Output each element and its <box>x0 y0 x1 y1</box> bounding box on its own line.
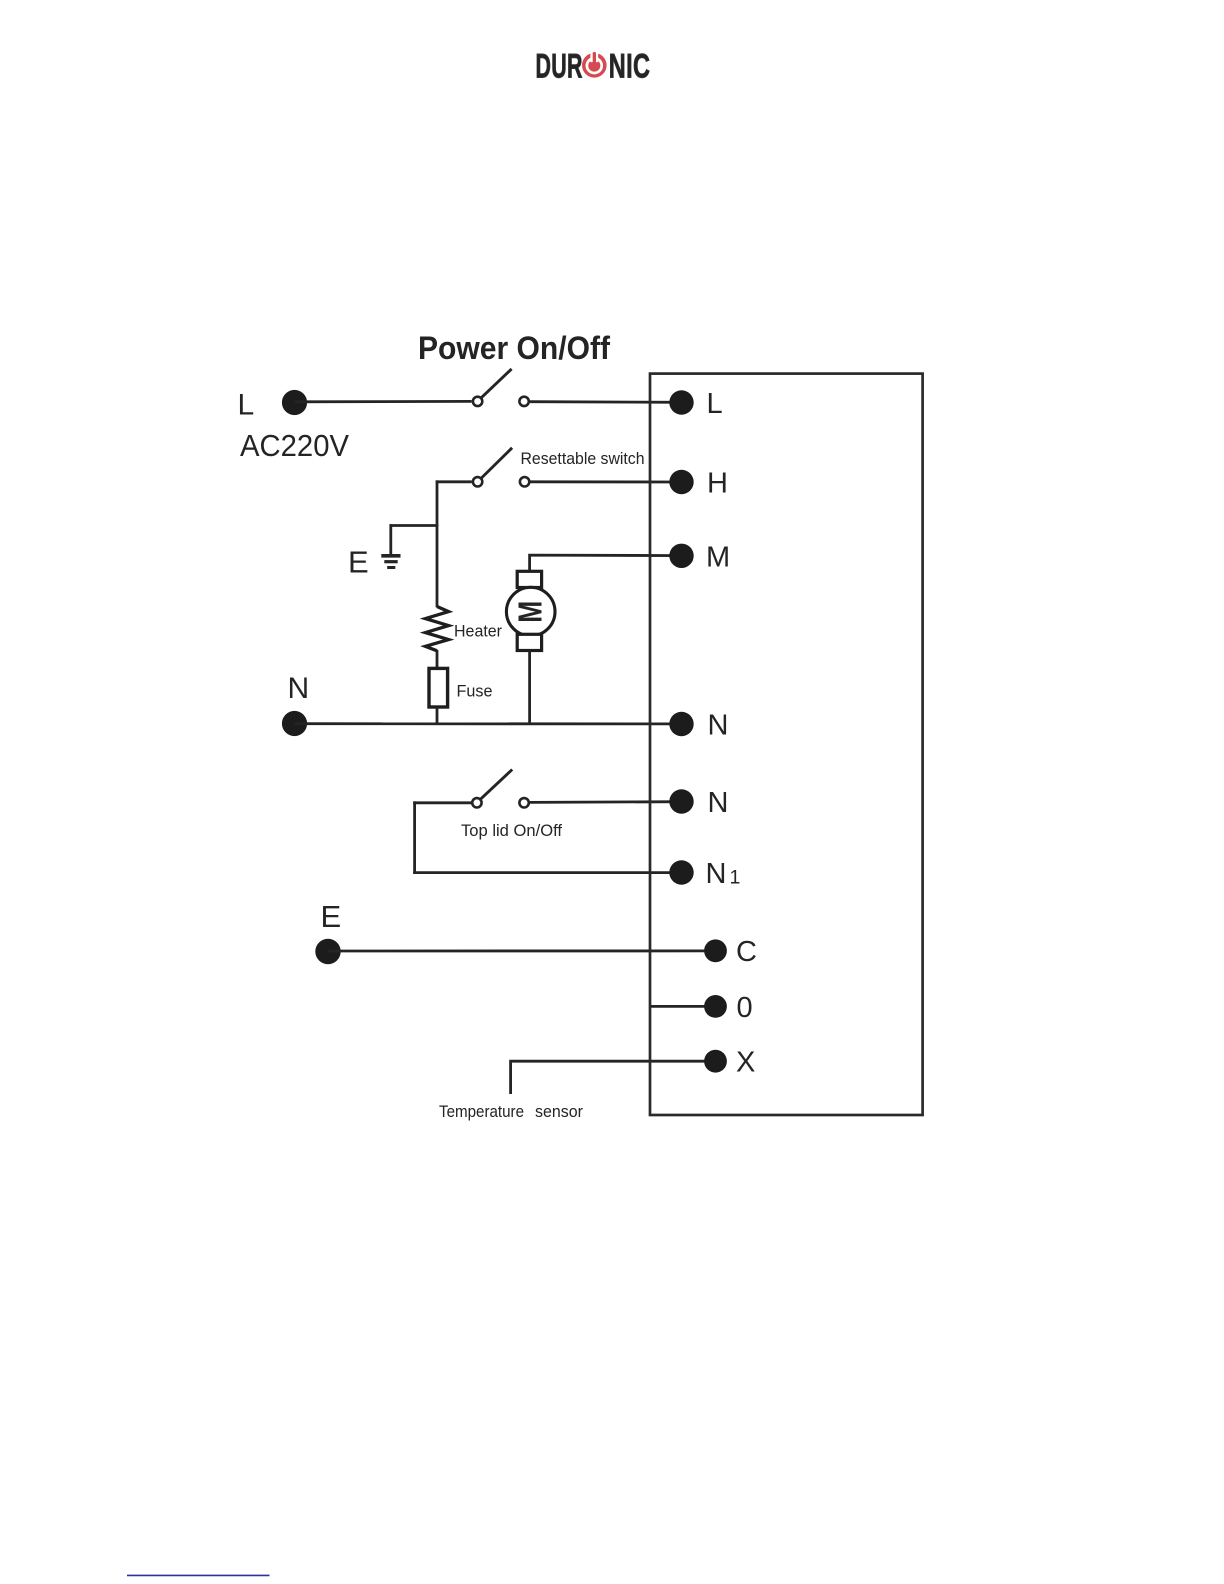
wire: top lid switch to terminal N <box>530 800 682 804</box>
wire: temperature sensor to terminal X <box>511 1061 716 1094</box>
wire: E to terminal C <box>328 950 716 953</box>
svg-text:N: N <box>708 787 729 819</box>
svg-text:C: C <box>736 936 757 968</box>
control box outline <box>650 374 923 1115</box>
wire: N bus <box>295 722 682 725</box>
svg-text:N: N <box>288 672 310 705</box>
terminal dot: mains N <box>282 711 307 736</box>
svg-text:N: N <box>708 709 729 741</box>
svg-text:E: E <box>321 899 342 934</box>
wire: L to power switch <box>295 400 472 403</box>
switch: Power On/Off <box>473 369 529 406</box>
logo power icon <box>582 51 607 78</box>
svg-text:E: E <box>348 545 369 580</box>
logo text DUR <box>536 48 583 86</box>
wire: heater branch vertical <box>436 480 439 607</box>
switch: Resettable <box>473 448 529 487</box>
svg-text:NIC: NIC <box>609 47 650 86</box>
svg-text:M: M <box>706 541 730 573</box>
wire: resettable switch to terminal H <box>530 480 681 483</box>
svg-text:M: M <box>513 601 549 623</box>
wire: motor to N bus <box>528 650 531 723</box>
motor M1 terminal block bottom <box>517 634 541 650</box>
terminal dot L <box>669 390 693 414</box>
motor M1 body <box>506 587 555 636</box>
wire: resettable switch to heater branch <box>436 480 472 483</box>
wire: earth branch horizontal <box>390 524 439 527</box>
wire: motor to terminal M <box>530 555 682 572</box>
motor M1 letter <box>513 601 549 623</box>
terminal dot N (top lid) <box>669 789 693 813</box>
resistor: Heater <box>425 607 448 651</box>
terminal dot H <box>669 470 693 494</box>
terminal dot M <box>669 544 693 568</box>
wire: heater to fuse <box>436 650 439 669</box>
svg-text:AC220V: AC220V <box>240 428 349 463</box>
terminal dot N <box>669 712 693 736</box>
motor M1 terminal block top <box>517 571 541 587</box>
svg-text:Power On/Off: Power On/Off <box>418 330 610 366</box>
svg-text:Temperature: Temperature <box>439 1103 524 1121</box>
svg-text:L: L <box>238 389 255 422</box>
svg-text:Resettable switch: Resettable switch <box>521 450 645 468</box>
svg-text:Top lid On/Off: Top lid On/Off <box>461 822 562 840</box>
terminal dot C <box>704 939 727 962</box>
wire: fuse to N bus <box>436 707 439 724</box>
fuse F1 <box>429 668 448 707</box>
switch: Top lid On/Off <box>472 770 529 808</box>
svg-text:X: X <box>736 1047 755 1079</box>
terminal dot 0 <box>704 995 727 1018</box>
svg-text:L: L <box>707 388 723 420</box>
svg-text:sensor: sensor <box>535 1103 583 1121</box>
wire: power switch to terminal L <box>530 400 682 403</box>
wire: box to terminal 0 <box>650 1005 716 1008</box>
terminal dot: E <box>315 939 340 964</box>
svg-text:Fuse: Fuse <box>457 682 493 701</box>
terminal dot: mains L <box>282 390 307 415</box>
svg-text:0: 0 <box>737 992 753 1024</box>
wire: loop vertical <box>413 801 416 874</box>
svg-text:N: N <box>706 858 727 890</box>
wire: loop to terminal N1 <box>413 871 681 874</box>
svg-text:1: 1 <box>730 867 741 889</box>
svg-text:H: H <box>707 468 728 500</box>
ground symbol <box>381 556 400 568</box>
wire: top lid switch to loop <box>413 801 471 804</box>
terminal dot N1 <box>669 860 693 884</box>
svg-text:DUR: DUR <box>536 48 583 86</box>
svg-text:Heater: Heater <box>454 622 502 641</box>
wire: earth branch vertical <box>389 524 392 554</box>
footer rule (blue) <box>127 1574 270 1576</box>
logo text NIC <box>609 47 650 86</box>
terminal dot X <box>704 1050 727 1073</box>
